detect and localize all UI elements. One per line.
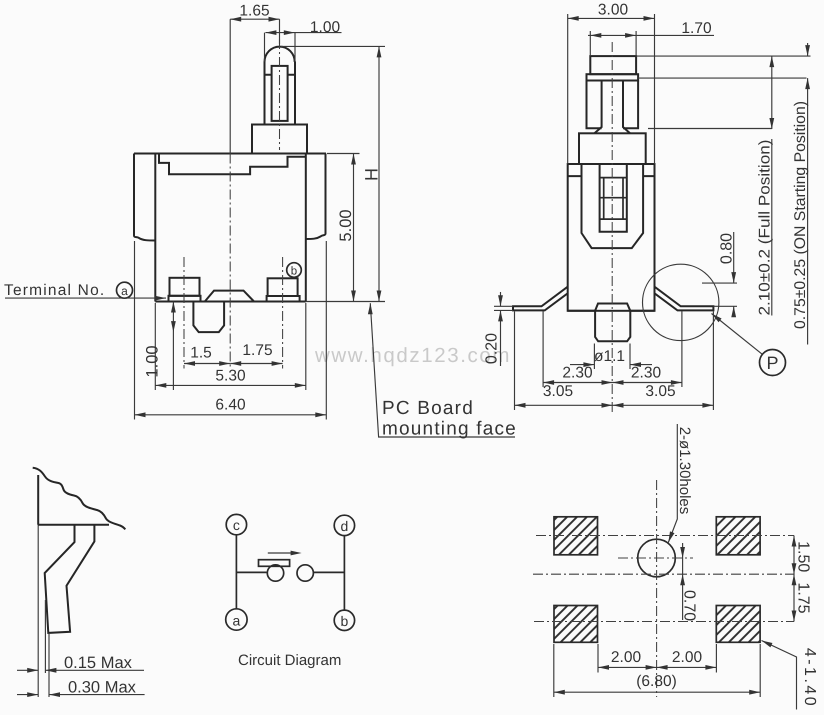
svg-text:2.00: 2.00 [672,649,703,666]
svg-text:2.10±0.2 (Full Position): 2.10±0.2 (Full Position) [757,140,774,316]
bent lead profile [45,525,95,633]
hole horizontal centerline [618,557,693,559]
label PC Board mounting face [368,303,517,439]
ON position extension line [638,77,806,79]
dimension 1.65 [230,3,279,154]
actuator head cap [590,56,636,74]
actuator inner slot [272,66,288,121]
dimension 0.80 [702,232,737,317]
svg-text:c: c [233,517,240,533]
button centerline [279,39,281,150]
body fragment edges [38,475,109,525]
svg-text:2.00: 2.00 [611,649,642,666]
svg-text:0.70: 0.70 [681,590,698,621]
shoulder extension line [648,128,772,130]
svg-text:mounting face: mounting face [382,419,517,440]
mounting face extension line [306,301,385,303]
wire c to a [235,535,237,609]
svg-text:5.30: 5.30 [215,368,246,385]
dimension 5.00 [327,154,360,302]
dimension 2.10+-0.2 Full Position [757,56,775,315]
svg-text:4-1.40: 4-1.40 [801,648,818,708]
pcb top pads centerline [536,535,794,537]
terminal c [226,514,246,534]
svg-text:2-ø1.30holes: 2-ø1.30holes [676,427,693,515]
head top extension line [636,55,810,57]
svg-text:1.5: 1.5 [190,345,212,362]
contact circle right [297,565,313,581]
label Terminal No.(a) [4,282,166,301]
dimension 6.40 [135,241,327,420]
leader to P balloon [710,312,786,376]
svg-text:3.05: 3.05 [543,383,573,400]
svg-text:Terminal No.: Terminal No. [4,282,105,299]
dimension 1.70 [588,20,714,56]
svg-text:(6.80): (6.80) [636,673,677,690]
terminal a [226,609,247,630]
dimension 0.75+-0.25 ON Starting Position [792,43,810,345]
pad bottom-right [716,606,760,643]
svg-text:2.30: 2.30 [562,365,593,382]
side inner cavity [582,164,644,248]
dimension 0.15 Max [17,654,144,673]
bottom locating boss [193,302,224,333]
dimension dia 1.1 [570,344,652,370]
pad top-left [554,517,598,555]
svg-text:1.00: 1.00 [144,345,162,377]
dimension 0.30 Max [17,679,145,697]
svg-text:H: H [362,168,382,181]
side base block [579,133,646,164]
svg-text:d: d [341,518,349,534]
wire right contact [313,571,344,573]
actuation direction arrow [268,551,302,556]
svg-text:1.65: 1.65 [239,3,269,20]
dimension 5.30 [155,303,305,390]
pad bottom-left [554,606,598,643]
actuator sleeve [587,81,639,129]
svg-text:PC Board: PC Board [382,398,474,419]
dimension 1.75 [230,342,282,366]
svg-text:0.20: 0.20 [484,333,501,364]
movable contact bar [259,560,290,567]
side centerline [611,42,613,412]
leader 2-dia1.30 holes [666,424,693,543]
front view top lid inner contour [159,154,306,175]
svg-text:b: b [341,613,349,629]
actuator button dome [265,47,296,125]
reference line [37,475,39,697]
svg-text:Circuit Diagram: Circuit Diagram [238,652,341,669]
svg-text:www.hqdz123.com: www.hqdz123.com [314,344,511,367]
terminal a block [169,278,201,302]
svg-text:0.30 Max: 0.30 Max [68,679,137,697]
inner shaft column [600,164,627,232]
svg-text:2.30: 2.30 [631,365,662,382]
svg-text:0.75±0.25 (ON Starting Posi: 0.75±0.25 (ON Starting Position) [792,101,809,329]
svg-text:0.15 Max: 0.15 Max [64,654,133,672]
dimension H [281,46,385,301]
mounting hole [638,539,676,577]
actuator flange [587,74,639,80]
lead tip extension lines [45,600,49,697]
svg-text:ø1.1: ø1.1 [594,348,625,365]
terminal a centerline [183,257,185,369]
svg-text:a: a [121,284,128,298]
front view left mounting wing [134,154,155,241]
svg-text:1.75: 1.75 [795,582,812,613]
svg-text:1.70: 1.70 [681,20,712,37]
side body outline [568,164,655,311]
dimension 3.05 pair [515,312,714,411]
svg-text:5.00: 5.00 [337,209,355,241]
svg-text:1.75: 1.75 [242,342,272,359]
left gull-wing lead [513,287,568,311]
label Circuit Diagram [238,652,341,669]
pcb middle centerline [533,573,794,575]
terminal b [334,610,354,630]
watermark www.hqdz123.com [314,344,511,367]
body fragment break line [33,468,126,530]
front view body outline [134,154,326,302]
center guide post [595,304,630,342]
dimension 1.00 boss depth [144,302,176,391]
dimension 3.00 [568,2,655,165]
svg-text:a: a [233,613,241,629]
actuator stem [595,81,631,134]
body centerline [229,154,231,369]
dimension 1.50 / 1.75 [792,536,812,622]
pcb vertical centerline [656,480,658,697]
contact circle left [267,565,283,581]
dimension 0.20 lead thickness [484,292,514,366]
svg-text:0.80: 0.80 [719,233,736,264]
wire left contact [236,571,266,573]
dimension 0.70 [680,543,697,621]
dimension 1.5 [184,345,230,366]
dimension 2.00 2.00 [598,644,716,673]
bottom center raised notch [205,291,254,302]
circle label b [287,263,302,278]
svg-text:P: P [766,353,778,373]
svg-text:3.00: 3.00 [598,2,629,19]
dimension 2.30 left [543,311,682,387]
front view right mounting wing [306,154,326,240]
side body corner notches [568,175,655,177]
actuator base block [252,125,307,154]
svg-text:3.05: 3.05 [645,383,675,400]
right gull-wing lead [655,287,714,311]
svg-text:1.50: 1.50 [795,541,812,572]
detail circle P [643,264,719,340]
pad top-right [716,517,760,555]
leader 4-1.40 [760,638,818,709]
dimension (6.80) [554,644,760,697]
svg-text:b: b [291,266,297,278]
terminal b block [267,278,300,301]
svg-text:1.00: 1.00 [310,19,341,36]
svg-text:6.40: 6.40 [215,397,246,414]
dimension 1.00 button width [265,19,342,62]
wire d to b [343,536,345,611]
pcb bottom pads centerline [534,621,794,623]
terminal d [334,515,354,535]
terminal b centerline [282,257,284,369]
